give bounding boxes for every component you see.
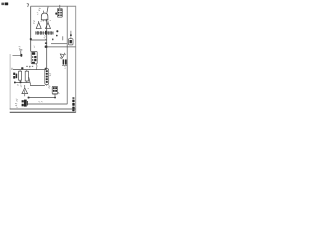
- label marks below cap row: [44, 36, 47, 40]
- wire: vertical through caps: [46, 19, 48, 69]
- op-amp A1 triangle: [22, 85, 29, 96]
- capacitor C4 polarized: [62, 59, 67, 65]
- junction tick on vertical: [45, 42, 47, 44]
- label above rail: [38, 101, 42, 104]
- junction tick on mid rail: [21, 67, 23, 69]
- resistor R1: [19, 70, 22, 83]
- capacitor row C1 C2 C3: [35, 31, 53, 35]
- border frame bottom inner line: [10, 108, 76, 110]
- wire: lower-left rail: [15, 82, 30, 84]
- wire: to divider bottom: [30, 85, 45, 87]
- junction tick rail to divider: [45, 68, 47, 70]
- switch arm: [29, 77, 31, 85]
- speaker T1 dark block: [22, 100, 28, 107]
- border frame bottom outer line: [10, 111, 76, 113]
- wire: output rail lower: [28, 103, 67, 105]
- wire: main left vertical bus: [30, 6, 32, 51]
- node dot on left bus: [30, 38, 32, 40]
- terminal nub rail start: [28, 97, 30, 99]
- crystal Y2 right triangle: [46, 20, 52, 28]
- label 7 near top corner: [27, 4, 29, 7]
- resistor R2: [25, 70, 28, 83]
- wire: lower horizontal rail: [47, 46, 76, 48]
- junction tick on lower-left rail: [20, 81, 22, 83]
- battery B1 left: [13, 47, 23, 57]
- node blob cap row centre: [45, 31, 47, 35]
- label 11: [12, 68, 13, 70]
- label near oscillator: [38, 8, 40, 10]
- wire: right vertical bus: [66, 6, 68, 104]
- diode stack D3-D7: [45, 69, 51, 86]
- label 25 on left bus: [33, 21, 35, 24]
- vertical figure label text right: [72, 97, 74, 111]
- sheet number text top-left: [1, 3, 8, 6]
- label specks above triangle: [17, 85, 21, 88]
- wire: output rail upper: [28, 97, 55, 99]
- label specks near rails: [56, 30, 58, 32]
- label 31: [29, 68, 30, 70]
- dashed armature link: [26, 65, 33, 67]
- label speck right of bus: [34, 46, 35, 48]
- label squiggle left of speaker: [16, 99, 18, 101]
- relay K1 top-right: [57, 5, 62, 17]
- wire relay to lower rail: [35, 64, 38, 70]
- border frame left edge: [9, 54, 11, 109]
- wire: upper horizontal rail: [51, 43, 67, 45]
- lamp M1 right side: [69, 31, 74, 45]
- terminal dot left end: [14, 82, 16, 84]
- transistor Q2 block: [13, 73, 17, 79]
- diode D2 symbol: [60, 53, 66, 59]
- label 4: [64, 67, 66, 69]
- tube V1 envelope dome: [41, 7, 48, 22]
- node dot 8: [55, 13, 57, 15]
- wire: mid horizontal rail: [13, 69, 47, 71]
- relay K3 bottom: [48, 86, 59, 98]
- wire: bus A to centre vertical: [31, 39, 47, 41]
- border frame right edge: [75, 6, 77, 113]
- junction dot stub-rail: [54, 97, 56, 99]
- junction blob rail corner: [45, 46, 48, 48]
- label speck left of dome: [37, 13, 39, 15]
- border frame top edge: [31, 5, 76, 7]
- crystal Y1 left triangle: [36, 21, 42, 29]
- relay K2 center: [31, 51, 37, 63]
